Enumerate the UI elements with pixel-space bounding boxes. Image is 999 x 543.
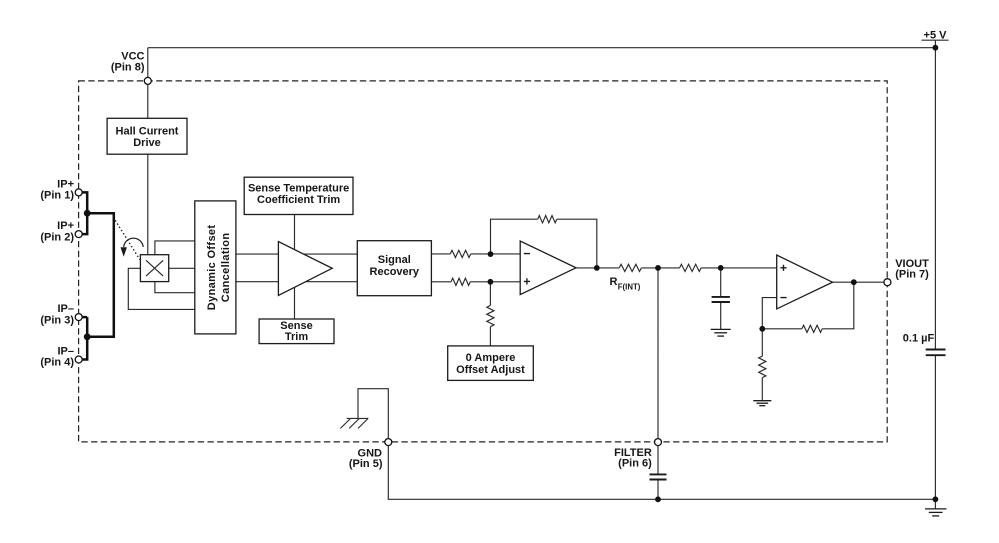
svg-text:Cancellation: Cancellation	[220, 233, 232, 303]
svg-text:(Pin 4): (Pin 4)	[40, 357, 74, 369]
svg-text:VCC: VCC	[121, 50, 144, 62]
svg-text:(Pin 2): (Pin 2)	[40, 231, 74, 243]
svg-text:Signal: Signal	[378, 254, 411, 266]
svg-text:Recovery: Recovery	[370, 266, 420, 278]
svg-text:R: R	[610, 276, 618, 288]
svg-text:Sense: Sense	[280, 320, 312, 332]
svg-text:Dynamic Offset: Dynamic Offset	[206, 225, 218, 311]
svg-text:+5 V: +5 V	[924, 29, 948, 41]
svg-text:Offset Adjust: Offset Adjust	[456, 364, 525, 376]
svg-text:(Pin 7): (Pin 7)	[895, 269, 929, 281]
svg-text:(Pin 6): (Pin 6)	[618, 458, 652, 470]
svg-text:0 Ampere: 0 Ampere	[466, 352, 516, 364]
svg-text:Drive: Drive	[133, 137, 161, 149]
svg-text:(Pin 5): (Pin 5)	[349, 458, 383, 470]
svg-text:0.1 µF: 0.1 µF	[903, 332, 935, 344]
svg-text:Trim: Trim	[285, 331, 308, 343]
svg-text:Coefficient Trim: Coefficient Trim	[257, 194, 340, 206]
svg-text:F(INT): F(INT)	[618, 283, 641, 292]
svg-text:Hall Current: Hall Current	[116, 125, 179, 137]
svg-text:Sense Temperature: Sense Temperature	[248, 182, 349, 194]
svg-text:(Pin 8): (Pin 8)	[111, 62, 145, 74]
svg-text:(Pin 1): (Pin 1)	[40, 190, 74, 202]
svg-text:(Pin 3): (Pin 3)	[40, 314, 74, 326]
